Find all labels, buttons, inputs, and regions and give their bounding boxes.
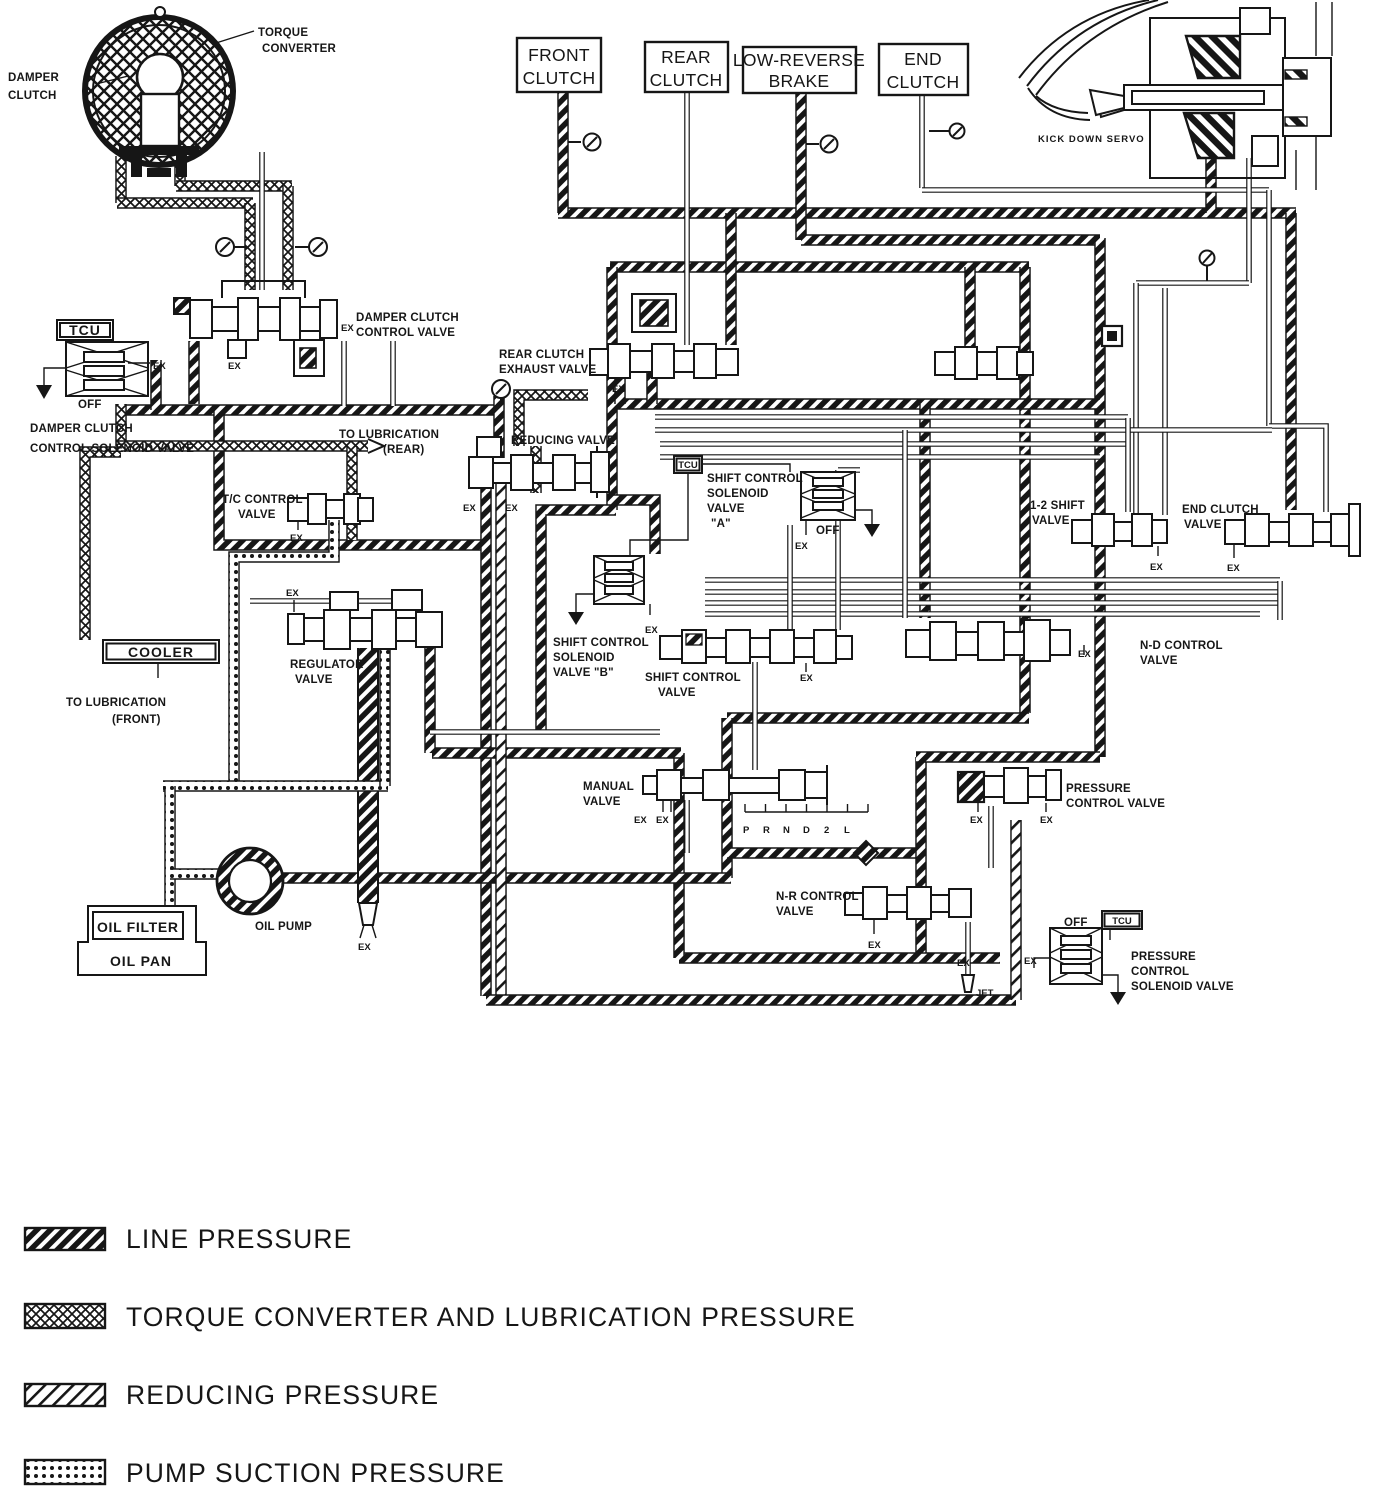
svg-text:SOLENOID VALVE: SOLENOID VALVE	[1131, 981, 1234, 993]
wire: suction from T/C control valve	[234, 520, 334, 786]
wire: damper valve lower thin pairs	[341, 341, 347, 406]
wire: solenoid to H5	[150, 360, 162, 410]
reducing valve	[469, 437, 609, 498]
label: damper clutch	[8, 72, 128, 102]
svg-text:CLUTCH: CLUTCH	[650, 70, 723, 90]
svg-text:EX: EX	[957, 958, 970, 969]
wire: reducing pressure vertical x501	[495, 483, 507, 995]
wire: shift control valve to manual valve	[752, 662, 758, 770]
svg-text:END CLUTCH: END CLUTCH	[1182, 504, 1259, 516]
wire: vertical x679 manual valve housing	[673, 753, 685, 958]
wire: reducing feed vertical x486 down to bottom	[480, 455, 492, 996]
svg-text:EX: EX	[612, 384, 625, 395]
wire: main bottom header H878 from oil pump	[272, 872, 731, 884]
wire: pressure control housing top H718	[727, 712, 1029, 724]
wire: line pressure main top header H1	[558, 207, 1296, 219]
damper clutch control solenoid valve	[36, 342, 150, 399]
svg-text:VALVE: VALVE	[238, 509, 276, 521]
svg-text:PRESSURE: PRESSURE	[1131, 951, 1196, 963]
svg-text:OIL PUMP: OIL PUMP	[255, 921, 312, 933]
wire: pressure control valve lower channel	[988, 806, 994, 868]
svg-text:VALVE: VALVE	[1140, 655, 1178, 667]
svg-text:OFF: OFF	[1064, 917, 1088, 929]
box: FRONT CLUTCH	[517, 38, 601, 92]
svg-text:EX: EX	[505, 503, 518, 514]
svg-text:EX: EX	[1078, 649, 1091, 660]
wire: vertical x925 H4 to shift valve cluster	[919, 404, 931, 618]
svg-text:(REAR): (REAR)	[383, 444, 424, 456]
svg-text:VALVE: VALVE	[658, 687, 696, 699]
svg-text:KICK DOWN SERVO: KICK DOWN SERVO	[1038, 134, 1145, 145]
svg-text:EX: EX	[290, 533, 303, 544]
label: torque converter	[216, 27, 336, 55]
label: to lubrication rear with arrow	[339, 429, 439, 456]
svg-text:VALVE: VALVE	[295, 674, 333, 686]
oil filter and oil pan	[78, 906, 206, 975]
svg-text:TCU: TCU	[678, 460, 698, 471]
wire: header H4	[616, 398, 1100, 410]
wire: header H757	[916, 751, 1100, 763]
wire: long right vertical V4	[1094, 238, 1106, 757]
wire: vertical x731 H1 to rear clutch exhaust valve	[725, 213, 737, 345]
label: to lubrication front	[66, 697, 166, 726]
wire: TCU to solenoid A and B	[630, 464, 790, 556]
svg-text:TCU: TCU	[69, 322, 101, 338]
N-R control valve	[845, 887, 971, 934]
svg-text:1-2 SHIFT: 1-2 SHIFT	[1030, 500, 1085, 512]
label: damper clutch control solenoid valve	[30, 423, 194, 455]
svg-text:TORQUE CONVERTER AND LUBRICATI: TORQUE CONVERTER AND LUBRICATION PRESSUR…	[126, 1302, 856, 1332]
svg-text:EX: EX	[228, 361, 241, 372]
svg-text:SHIFT CONTROL: SHIFT CONTROL	[553, 637, 649, 649]
svg-text:CLUTCH: CLUTCH	[887, 72, 960, 92]
svg-text:SOLENOID: SOLENOID	[553, 652, 615, 664]
T/C control valve	[288, 494, 373, 530]
wire: TCU to damper solenoid	[84, 340, 86, 352]
node: pressure tap end clutch	[929, 124, 965, 139]
wire: stubs below rear clutch exhaust valve	[614, 373, 626, 404]
svg-text:LINE PRESSURE: LINE PRESSURE	[126, 1224, 352, 1254]
svg-text:N-D CONTROL: N-D CONTROL	[1140, 640, 1223, 652]
wire: torque converter right loop	[174, 148, 186, 186]
svg-text:PRESSURE: PRESSURE	[1066, 783, 1131, 795]
svg-text:REAR: REAR	[661, 47, 711, 67]
shift control solenoid valve B	[568, 556, 650, 625]
svg-text:EX: EX	[153, 361, 166, 372]
svg-text:EX: EX	[463, 503, 476, 514]
svg-text:CONTROL: CONTROL	[1131, 966, 1189, 978]
rear clutch exhaust valve	[590, 294, 738, 378]
node: pressure tap front clutch	[568, 134, 601, 151]
box: LOW-REVERSE BRAKE	[733, 47, 865, 93]
svg-text:EX: EX	[800, 673, 813, 684]
regulator valve	[288, 590, 442, 649]
label: pressure control valve	[1066, 783, 1165, 810]
wire: reducing bottom header H1000	[486, 994, 1016, 1006]
svg-text:VALVE: VALVE	[707, 503, 745, 515]
wire: kick down servo drop	[1205, 155, 1217, 213]
svg-text:REDUCING PRESSURE: REDUCING PRESSURE	[126, 1380, 439, 1410]
box: REAR CLUTCH	[645, 42, 728, 92]
svg-text:"A": "A"	[711, 518, 731, 530]
wire: vertical x727 down to main bottom	[721, 718, 733, 878]
svg-text:REGULATOR: REGULATOR	[290, 659, 364, 671]
node: pressure tap kick down line	[1200, 251, 1215, 282]
box: TCU middle	[674, 456, 702, 473]
wire: vertical x970 H3 to valve	[964, 267, 976, 350]
wire: manual valve stem down	[684, 800, 690, 853]
svg-text:VALVE "B": VALVE "B"	[553, 667, 614, 679]
wire: low-reverse brake drop	[795, 91, 807, 240]
label: T/C control valve	[222, 494, 303, 521]
wire: H7 and vertical x541	[541, 510, 616, 731]
node: manual valve position ruler P R N D 2 L	[743, 804, 868, 836]
wire: third header H3	[610, 261, 1029, 273]
label: shift control solenoid valve B	[553, 637, 649, 679]
wire: end clutch valve feed right side	[1266, 190, 1272, 426]
N-D control valve body	[906, 620, 1084, 661]
wire: vertical x921	[915, 757, 927, 958]
wire: converter hub drop	[259, 152, 265, 290]
wire: torque converter left loop	[115, 156, 127, 203]
wire: vertical x612 from H3 to H7	[606, 267, 618, 510]
label: regulator valve	[290, 659, 364, 686]
svg-text:D: D	[803, 825, 810, 836]
wire: thin bus B	[705, 577, 1280, 583]
wire: regulator top thin line	[250, 598, 398, 604]
wire: suction down to oil filter and pump	[164, 786, 176, 906]
svg-text:EX: EX	[358, 942, 371, 953]
spool valve right of exhaust valve	[935, 347, 1033, 379]
svg-text:REDUCING VALVE: REDUCING VALVE	[511, 435, 615, 447]
svg-text:SHIFT CONTROL: SHIFT CONTROL	[707, 473, 803, 485]
svg-text:CONTROL VALVE: CONTROL VALVE	[356, 327, 455, 339]
label: pressure control solenoid valve	[1131, 951, 1234, 993]
svg-text:OIL PAN: OIL PAN	[110, 953, 172, 969]
wire: crosshatch through T/C control valve	[346, 446, 358, 540]
svg-text:VALVE: VALVE	[1184, 519, 1222, 531]
node: pressure tap torque converter right	[295, 238, 327, 256]
svg-text:CLUTCH: CLUTCH	[8, 90, 56, 102]
label: manual valve	[583, 781, 634, 808]
svg-text:EX: EX	[645, 625, 658, 636]
wire: right vertical to end clutch valve	[1285, 213, 1297, 510]
label: N-R control valve	[776, 891, 859, 918]
svg-text:EX: EX	[341, 323, 354, 334]
label: shift control solenoid valve A	[707, 473, 803, 530]
svg-text:CONVERTER: CONVERTER	[262, 43, 336, 55]
svg-text:COOLER: COOLER	[128, 644, 194, 660]
wire: reducing vertical to pressure control valve	[1010, 820, 1022, 1000]
label: damper clutch control valve	[356, 312, 459, 339]
svg-text:SOLENOID: SOLENOID	[707, 488, 769, 500]
wire: feed to solenoid B	[612, 500, 655, 554]
svg-text:EX: EX	[1150, 562, 1163, 573]
svg-text:OFF: OFF	[78, 399, 102, 411]
wire: regulator wide exhaust pipe	[357, 648, 379, 903]
wire: tap line kick down	[1136, 280, 1249, 286]
svg-text:VALVE: VALVE	[583, 796, 621, 808]
node: jet orifice	[962, 975, 974, 992]
svg-text:CLUTCH: CLUTCH	[523, 68, 596, 88]
1-2 shift valve	[1072, 514, 1167, 556]
node: pressure tap torque converter left	[216, 238, 247, 256]
svg-text:MANUAL: MANUAL	[583, 781, 634, 793]
svg-text:EX: EX	[795, 541, 808, 552]
svg-text:VALVE: VALVE	[776, 906, 814, 918]
svg-text:EXHAUST VALVE: EXHAUST VALVE	[499, 364, 597, 376]
svg-text:TO LUBRICATION: TO LUBRICATION	[339, 429, 439, 441]
label: end clutch valve	[1182, 504, 1259, 531]
node: pressure tap reducing	[492, 380, 510, 406]
svg-text:2: 2	[824, 825, 829, 836]
legend: reducing pressure	[25, 1380, 439, 1410]
svg-text:TORQUE: TORQUE	[258, 27, 308, 39]
wire: lubrication rear line	[115, 404, 127, 446]
damper clutch control valve	[174, 281, 337, 376]
svg-text:EX: EX	[1040, 815, 1053, 826]
svg-text:SHIFT CONTROL: SHIFT CONTROL	[645, 672, 741, 684]
svg-text:DAMPER CLUTCH: DAMPER CLUTCH	[356, 312, 459, 324]
wire: vertical x1025 from H3 to pressure control housing	[1019, 267, 1031, 713]
label: N-D control valve	[1140, 640, 1223, 667]
oil pump	[217, 848, 283, 914]
svg-text:REAR CLUTCH: REAR CLUTCH	[499, 349, 584, 361]
svg-text:EX: EX	[970, 815, 983, 826]
svg-text:OFF: OFF	[816, 525, 840, 537]
svg-text:TO LUBRICATION: TO LUBRICATION	[66, 697, 166, 709]
label: shift control valve	[645, 672, 741, 699]
legend: torque converter and lubrication pressure	[25, 1302, 856, 1332]
box: END CLUTCH	[879, 44, 968, 95]
svg-text:P: P	[743, 825, 750, 836]
svg-text:R: R	[763, 825, 770, 836]
svg-text:LOW-REVERSE: LOW-REVERSE	[733, 50, 865, 70]
wire: N-R jet stem	[965, 922, 971, 988]
svg-text:(FRONT): (FRONT)	[112, 714, 161, 726]
pressure control valve	[958, 768, 1061, 812]
node: bridge crossover on manual housing	[854, 841, 878, 865]
wire: suction horizontal to regulator	[163, 780, 388, 792]
node: junction box on V4	[1102, 326, 1122, 346]
label: rear clutch exhaust valve	[499, 349, 597, 376]
legend: line pressure	[25, 1224, 352, 1254]
wire: servo thin drop	[1246, 158, 1252, 283]
wire: front clutch drop	[557, 91, 569, 213]
wire: end clutch thin drop and run to servo	[919, 95, 925, 188]
node: pressure tap low-reverse	[806, 136, 838, 153]
wire: damper valve down leg	[188, 341, 200, 404]
svg-text:CONTROL VALVE: CONTROL VALVE	[1066, 798, 1165, 810]
wire: solenoid drops to shift control valve	[787, 525, 793, 630]
svg-text:JET: JET	[976, 988, 994, 999]
svg-text:L: L	[844, 825, 850, 836]
wire: N-R housing bottom H958	[679, 952, 1000, 964]
svg-text:TCU: TCU	[1112, 916, 1132, 927]
wire: crosshatch from exhaust valve to lube	[519, 395, 588, 446]
wire: vertical x219 and header H6	[219, 410, 486, 545]
wire: header H5 left	[117, 404, 497, 416]
manual valve	[643, 765, 827, 812]
end clutch valve	[1225, 504, 1360, 558]
svg-text:EX: EX	[656, 815, 669, 826]
svg-text:OIL FILTER: OIL FILTER	[97, 919, 179, 935]
wire: second header H2	[801, 234, 1100, 246]
svg-text:VALVE: VALVE	[1032, 515, 1070, 527]
svg-text:EX: EX	[1227, 563, 1240, 574]
wire: housing bottom H853	[727, 847, 918, 859]
shift control valve	[660, 630, 852, 672]
wire: regulator out vertical x430	[424, 645, 436, 753]
kick down servo	[1019, 0, 1332, 190]
svg-text:EX: EX	[868, 940, 881, 951]
wire: rear clutch thin drop	[684, 92, 690, 345]
pressure control solenoid valve	[1034, 928, 1126, 1005]
box: TCU bottom right	[1102, 911, 1142, 929]
svg-text:END: END	[904, 49, 942, 69]
svg-text:DAMPER CLUTCH: DAMPER CLUTCH	[30, 423, 133, 435]
wire: thin pair into shift control valve left	[430, 729, 660, 735]
svg-text:PUMP SUCTION PRESSURE: PUMP SUCTION PRESSURE	[126, 1458, 505, 1488]
svg-text:BRAKE: BRAKE	[769, 71, 830, 91]
node: regulator exhaust nozzle	[359, 903, 377, 938]
svg-text:EX: EX	[634, 815, 647, 826]
svg-text:T/C CONTROL: T/C CONTROL	[222, 494, 303, 506]
svg-text:EX: EX	[286, 588, 299, 599]
label: 1-2 shift valve	[1030, 500, 1085, 527]
legend: pump suction pressure	[25, 1458, 505, 1488]
wire: thin bus A	[655, 414, 1128, 420]
svg-text:EX: EX	[1024, 956, 1037, 967]
box: TCU left	[57, 320, 113, 340]
wire: manual valve inlet H753	[432, 747, 681, 759]
svg-text:DAMPER: DAMPER	[8, 72, 60, 84]
svg-text:FRONT: FRONT	[528, 45, 590, 65]
wire: cooler branch	[85, 452, 121, 640]
wire: tap to reducing valve	[493, 396, 505, 458]
box: COOLER	[103, 640, 219, 678]
torque converter	[85, 7, 233, 177]
svg-text:N-R CONTROL: N-R CONTROL	[776, 891, 859, 903]
svg-text:N: N	[783, 825, 790, 836]
svg-text:CONTROL SOLENOID VALVE: CONTROL SOLENOID VALVE	[30, 443, 194, 455]
shift control solenoid valve A	[801, 472, 880, 537]
